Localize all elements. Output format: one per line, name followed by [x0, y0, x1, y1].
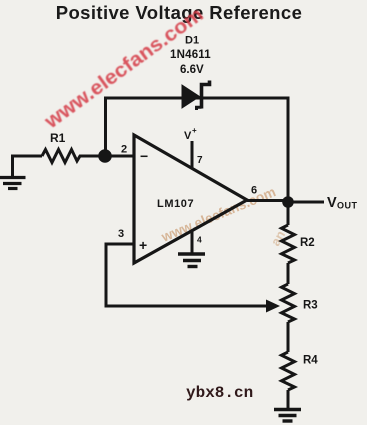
svg-text:LM107: LM107 [157, 198, 194, 210]
svg-text:1N4611: 1N4611 [170, 49, 211, 61]
svg-text:V: V [327, 195, 337, 211]
svg-text:−: − [140, 148, 148, 164]
svg-text:2: 2 [121, 144, 127, 156]
svg-text:3: 3 [118, 228, 124, 240]
svg-text:R2: R2 [300, 237, 315, 249]
svg-text:V: V [184, 130, 192, 142]
svg-text:6: 6 [251, 185, 257, 197]
svg-text:ybx8.cn: ybx8.cn [186, 384, 253, 402]
svg-text:R1: R1 [50, 131, 66, 145]
svg-text:R4: R4 [303, 355, 318, 367]
svg-text:D1: D1 [185, 35, 199, 47]
svg-text:OUT: OUT [337, 201, 358, 211]
svg-text:4: 4 [197, 235, 202, 245]
svg-text:+: + [192, 126, 197, 135]
svg-text:+: + [139, 237, 147, 253]
svg-text:7: 7 [197, 155, 203, 166]
svg-text:R3: R3 [303, 300, 318, 312]
svg-text:6.6V: 6.6V [180, 64, 204, 76]
